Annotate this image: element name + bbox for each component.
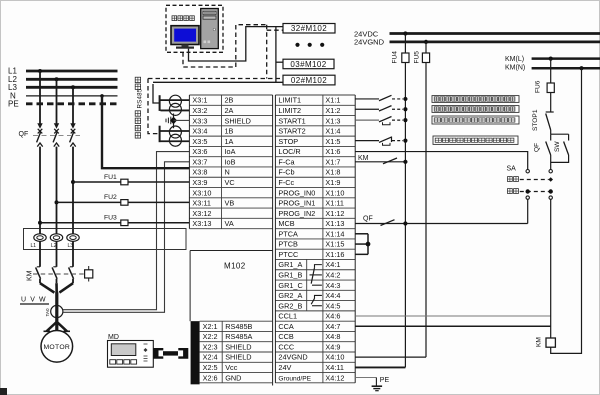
svg-text:X1:13: X1:13 bbox=[325, 219, 344, 228]
svg-text:X4:11: X4:11 bbox=[325, 363, 344, 372]
svg-text:L2: L2 bbox=[51, 243, 57, 249]
svg-text:24VGND: 24VGND bbox=[354, 38, 385, 47]
svg-text:GR1_C: GR1_C bbox=[278, 281, 302, 290]
svg-text:MCB: MCB bbox=[278, 219, 294, 228]
svg-text:GR2_A: GR2_A bbox=[278, 291, 302, 300]
svg-text:X1:10: X1:10 bbox=[325, 188, 344, 197]
svg-text:X3:13: X3:13 bbox=[192, 219, 211, 228]
svg-text:Ground/PE: Ground/PE bbox=[278, 375, 311, 382]
svg-text:X3:6: X3:6 bbox=[192, 147, 207, 156]
svg-text:PTCA: PTCA bbox=[278, 229, 298, 238]
svg-text:X4:7: X4:7 bbox=[325, 322, 340, 331]
svg-text:PTCC: PTCC bbox=[278, 250, 298, 259]
svg-text:GR2_B: GR2_B bbox=[278, 301, 302, 310]
svg-text:X3:1: X3:1 bbox=[192, 96, 207, 105]
svg-text:03#M102: 03#M102 bbox=[290, 60, 326, 69]
svg-text:RS485B: RS485B bbox=[225, 322, 252, 331]
svg-text:VA: VA bbox=[225, 219, 234, 228]
svg-text:FU2: FU2 bbox=[104, 194, 117, 201]
svg-text:GND: GND bbox=[225, 373, 241, 382]
svg-text:X2:5: X2:5 bbox=[203, 363, 218, 372]
svg-text:FU4: FU4 bbox=[392, 51, 399, 64]
svg-text:X3:12: X3:12 bbox=[192, 209, 211, 218]
svg-text:F-Cc: F-Cc bbox=[278, 178, 294, 187]
svg-text:CCL1: CCL1 bbox=[278, 312, 297, 321]
svg-text:SHIELD: SHIELD bbox=[225, 116, 251, 125]
svg-text:LOC/R: LOC/R bbox=[278, 147, 300, 156]
svg-text:QF: QF bbox=[19, 131, 29, 138]
svg-text:SA: SA bbox=[507, 165, 517, 172]
svg-text:X1:5: X1:5 bbox=[325, 137, 340, 146]
svg-text:FU6: FU6 bbox=[535, 80, 542, 93]
svg-text:X4:2: X4:2 bbox=[325, 271, 340, 280]
svg-text:STOP1: STOP1 bbox=[532, 109, 539, 131]
svg-text:X2:3: X2:3 bbox=[203, 342, 218, 351]
svg-text:PROG_IN0: PROG_IN0 bbox=[278, 188, 315, 197]
svg-text:X3:7: X3:7 bbox=[192, 157, 207, 166]
svg-text:Vcc: Vcc bbox=[225, 363, 238, 372]
svg-text:PROG_IN2: PROG_IN2 bbox=[278, 209, 315, 218]
svg-text:X1:3: X1:3 bbox=[325, 116, 340, 125]
svg-text:CCB: CCB bbox=[278, 332, 294, 341]
svg-text:X3:11: X3:11 bbox=[192, 199, 211, 208]
svg-text:CCA: CCA bbox=[278, 322, 294, 331]
svg-text:MOTOR: MOTOR bbox=[43, 344, 70, 351]
svg-text:KM(L): KM(L) bbox=[505, 56, 524, 63]
svg-text:X4:8: X4:8 bbox=[325, 332, 340, 341]
svg-text:X1:2: X1:2 bbox=[325, 106, 340, 115]
svg-text:02#M102: 02#M102 bbox=[291, 76, 327, 85]
svg-text:MD: MD bbox=[108, 334, 119, 341]
svg-text:X1:6: X1:6 bbox=[325, 147, 340, 156]
svg-text:F-Ca: F-Ca bbox=[278, 157, 295, 166]
svg-text:LIMIT2: LIMIT2 bbox=[278, 106, 301, 115]
svg-text:U V W: U V W bbox=[21, 296, 47, 303]
svg-text:X1:1: X1:1 bbox=[325, 96, 340, 105]
svg-text:FU5: FU5 bbox=[414, 51, 421, 64]
svg-text:X2:2: X2:2 bbox=[203, 332, 218, 341]
svg-text:X3:10: X3:10 bbox=[192, 188, 211, 197]
svg-text:X1:14: X1:14 bbox=[325, 229, 344, 238]
svg-text:TA0: TA0 bbox=[45, 308, 50, 317]
svg-text:X4:6: X4:6 bbox=[325, 312, 340, 321]
svg-text:SHIELD: SHIELD bbox=[225, 342, 251, 351]
svg-text:X3:8: X3:8 bbox=[192, 168, 207, 177]
svg-text:X4:10: X4:10 bbox=[325, 353, 344, 362]
svg-text:KM(N): KM(N) bbox=[505, 64, 525, 71]
svg-text:QF: QF bbox=[534, 143, 541, 152]
svg-text:STOP: STOP bbox=[278, 137, 298, 146]
svg-text:X1:11: X1:11 bbox=[325, 199, 344, 208]
svg-text:KM: KM bbox=[27, 270, 34, 281]
svg-text:X3:9: X3:9 bbox=[192, 178, 207, 187]
svg-text:RS485A: RS485A bbox=[225, 332, 252, 341]
svg-text:X1:12: X1:12 bbox=[325, 209, 344, 218]
svg-text:VC: VC bbox=[225, 178, 235, 187]
svg-text:GR1_A: GR1_A bbox=[278, 260, 302, 269]
svg-text:KM: KM bbox=[536, 337, 543, 347]
svg-text:PROG_IN1: PROG_IN1 bbox=[278, 199, 315, 208]
svg-text:L3: L3 bbox=[68, 243, 74, 249]
svg-text:START1: START1 bbox=[278, 116, 305, 125]
svg-text:LIMIT1: LIMIT1 bbox=[278, 96, 301, 105]
svg-text:X1:15: X1:15 bbox=[325, 240, 344, 249]
svg-text:X1:9: X1:9 bbox=[325, 178, 340, 187]
svg-text:FU3: FU3 bbox=[104, 215, 117, 222]
svg-text:N: N bbox=[225, 168, 230, 177]
svg-text:1A: 1A bbox=[225, 137, 234, 146]
svg-text:X2:4: X2:4 bbox=[203, 353, 218, 362]
svg-text:24VGND: 24VGND bbox=[278, 353, 307, 362]
svg-text:GR1_B: GR1_B bbox=[278, 271, 302, 280]
svg-text:X3:2: X3:2 bbox=[192, 106, 207, 115]
svg-text:X2:6: X2:6 bbox=[203, 373, 218, 382]
svg-text:SW: SW bbox=[554, 141, 561, 152]
svg-text:RS485: RS485 bbox=[137, 88, 144, 108]
svg-text:F-Cb: F-Cb bbox=[278, 168, 294, 177]
svg-text:CCC: CCC bbox=[278, 342, 294, 351]
svg-text:M102: M102 bbox=[224, 262, 246, 271]
svg-text:X4:5: X4:5 bbox=[325, 301, 340, 310]
svg-text:X1:8: X1:8 bbox=[325, 168, 340, 177]
svg-text:24V: 24V bbox=[278, 363, 291, 372]
svg-text:X4:12: X4:12 bbox=[325, 373, 344, 382]
svg-text:X1:7: X1:7 bbox=[325, 157, 340, 166]
svg-text:X3:4: X3:4 bbox=[192, 127, 207, 136]
svg-text:START2: START2 bbox=[278, 127, 305, 136]
svg-text:32#M102: 32#M102 bbox=[291, 24, 327, 33]
svg-text:2A: 2A bbox=[225, 106, 234, 115]
svg-text:X4:3: X4:3 bbox=[325, 281, 340, 290]
svg-text:2B: 2B bbox=[225, 96, 234, 105]
svg-text:X4:4: X4:4 bbox=[325, 291, 340, 300]
svg-text:1B: 1B bbox=[225, 127, 234, 136]
svg-text:X3:5: X3:5 bbox=[192, 137, 207, 146]
svg-text:X1:16: X1:16 bbox=[325, 250, 344, 259]
svg-text:X3:3: X3:3 bbox=[192, 116, 207, 125]
svg-text:PE: PE bbox=[380, 377, 390, 384]
svg-text:FU1: FU1 bbox=[104, 174, 117, 181]
svg-text:VB: VB bbox=[225, 199, 235, 208]
svg-text:X4:9: X4:9 bbox=[325, 342, 340, 351]
svg-text:PTCB: PTCB bbox=[278, 240, 298, 249]
svg-text:SHIELD: SHIELD bbox=[225, 353, 251, 362]
svg-text:X2:1: X2:1 bbox=[203, 322, 218, 331]
svg-text:KM: KM bbox=[358, 155, 369, 162]
svg-text:PE: PE bbox=[8, 99, 19, 108]
svg-text:X4:1: X4:1 bbox=[325, 260, 340, 269]
svg-text:IoB: IoB bbox=[225, 157, 236, 166]
svg-text:L1: L1 bbox=[31, 243, 37, 249]
svg-text:X1:4: X1:4 bbox=[325, 127, 340, 136]
svg-text:QF: QF bbox=[363, 216, 373, 223]
svg-text:IoA: IoA bbox=[225, 147, 236, 156]
